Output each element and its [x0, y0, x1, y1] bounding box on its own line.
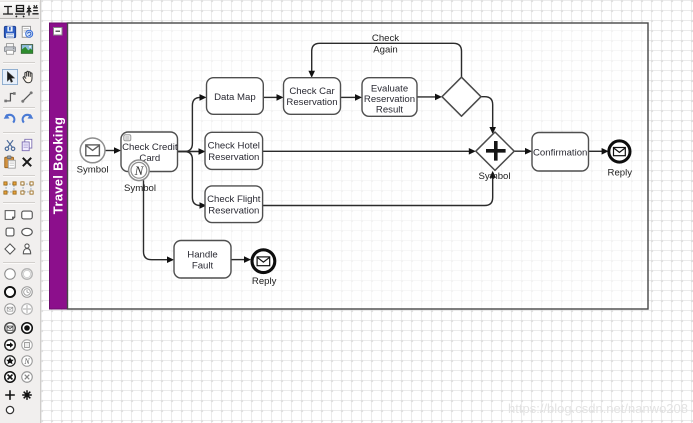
wire Confirmation to Reply end: [589, 148, 609, 155]
svg-text:N: N: [23, 357, 30, 366]
svg-text:Data Map: Data Map: [214, 92, 256, 103]
icon shape ellipse: [20, 225, 34, 239]
icon undo: [3, 111, 17, 125]
icon gateway star: [20, 388, 34, 402]
watermark: [508, 401, 688, 416]
icon elbow connector: [3, 90, 17, 104]
icon event X bold: [3, 370, 17, 384]
parallel gateway Symbol: [476, 132, 514, 182]
task Check Car Reservation: [284, 78, 341, 115]
svg-text:Symbol: Symbol: [77, 165, 109, 176]
label Check Again: [372, 33, 399, 55]
icon paste: [3, 155, 17, 169]
svg-text:Reservation: Reservation: [286, 97, 337, 108]
wire gateway to parallel gateway: [481, 97, 496, 134]
icon event N italic: [20, 354, 34, 368]
wire Handle Fault to Reply end: [231, 256, 251, 263]
icon event circle thick: [3, 285, 17, 299]
icon group: [3, 181, 17, 195]
icon redo: [20, 111, 34, 125]
icon shape actor: [20, 242, 34, 256]
wire Check Hotel Reservation to parallel gateway: [263, 148, 476, 155]
svg-text:Result: Result: [376, 104, 404, 115]
svg-text:Check: Check: [372, 33, 399, 44]
pool Travel Booking : header bar: [50, 23, 68, 309]
icon event link arrow: [3, 338, 17, 352]
task Confirmation: [532, 133, 589, 172]
wire Check Credit Card to Data Map: [178, 94, 207, 151]
icon shape small square: [3, 225, 17, 239]
icon ungroup: [20, 181, 34, 195]
pool body: [68, 23, 649, 309]
wire Check Again loop : gateway top to Check Car top: [308, 43, 461, 77]
icon cut: [3, 138, 17, 152]
icon shape diamond: [3, 242, 17, 256]
svg-text:Confirmation: Confirmation: [533, 147, 587, 158]
icon delete: [20, 155, 34, 169]
wire Data Map to Check Car Reservation: [263, 94, 283, 101]
end event Reply (bottom): [252, 250, 277, 287]
icon gateway plus: [3, 388, 17, 402]
svg-text:Reply: Reply: [252, 276, 277, 287]
icon print: [3, 42, 17, 56]
svg-text:Check Hotel: Check Hotel: [208, 141, 260, 152]
icon event X thin: [20, 370, 34, 384]
task Check Hotel Reservation: [205, 132, 263, 169]
svg-text:Evaluate: Evaluate: [371, 83, 408, 94]
svg-text:Reservation: Reservation: [364, 94, 415, 105]
icon small circle: [3, 403, 17, 417]
svg-text:Fault: Fault: [192, 261, 214, 272]
wire start to Check Credit Card: [106, 147, 122, 154]
icon shape rounded rect: [20, 208, 34, 222]
wire Evaluate Reservation Result to gateway: [417, 94, 442, 101]
svg-text:Reservation: Reservation: [208, 152, 259, 163]
icon image: [20, 42, 34, 56]
icon event circle thin: [3, 267, 17, 281]
svg-text:Reply: Reply: [608, 168, 633, 179]
task Data Map: [207, 78, 264, 115]
svg-text:Check Flight: Check Flight: [207, 194, 261, 205]
svg-text:Check Credit: Check Credit: [122, 142, 178, 153]
svg-text:N: N: [134, 163, 145, 178]
svg-text:https://blog.csdn.net/nanwo208: https://blog.csdn.net/nanwo208: [508, 401, 688, 416]
svg-text:Check Car: Check Car: [289, 86, 335, 97]
task Check Credit Card: [121, 132, 178, 172]
icon save: [3, 25, 17, 39]
icon straight connector: [20, 90, 34, 104]
svg-text:Symbol: Symbol: [124, 183, 156, 194]
svg-text:Handle: Handle: [187, 250, 217, 261]
icon event star filled: [3, 354, 17, 368]
icon cursor (selected): [2, 69, 18, 85]
svg-text:Travel Booking: Travel Booking: [51, 117, 66, 214]
wire Check Credit Card to Check Hotel Reservation: [178, 148, 206, 155]
wire boundary event to Handle Fault: [144, 180, 175, 263]
icon hand: [20, 69, 36, 85]
icon event message bold: [3, 321, 17, 335]
svg-text:Reservation: Reservation: [208, 205, 259, 216]
wire Check Flight Reservation to parallel gateway: [263, 171, 496, 206]
icon event message grey: [3, 302, 17, 316]
icon event circle clock: [20, 285, 34, 299]
wire Check Credit Card to Check Flight Reservation: [178, 152, 207, 209]
start event Symbol: [77, 138, 109, 176]
task Handle Fault: [174, 241, 231, 279]
toolbar panel: [0, 0, 41, 423]
icon event square inside: [20, 338, 34, 352]
icon event circle grey: [20, 267, 34, 281]
boundary event Symbol on Check Credit Card: [124, 160, 156, 194]
icon shape note rect: [3, 208, 17, 222]
wire Check Car Reservation to Evaluate Reservation Result: [341, 94, 363, 101]
icon copy: [20, 138, 34, 152]
task Evaluate Reservation Result: [362, 78, 417, 117]
svg-text:Again: Again: [373, 45, 398, 56]
icon event cross grey: [20, 302, 34, 316]
svg-text:Symbol: Symbol: [479, 171, 511, 182]
wire parallel gateway to Confirmation: [514, 148, 532, 155]
toolbar separators: [3, 62, 35, 64]
icon event terminate: [20, 321, 34, 335]
end event Reply (right): [608, 141, 633, 179]
icon preview: [20, 25, 34, 39]
task Check Flight Reservation: [205, 186, 263, 223]
exclusive gateway: [442, 77, 481, 116]
pool collapse button: [54, 28, 63, 36]
